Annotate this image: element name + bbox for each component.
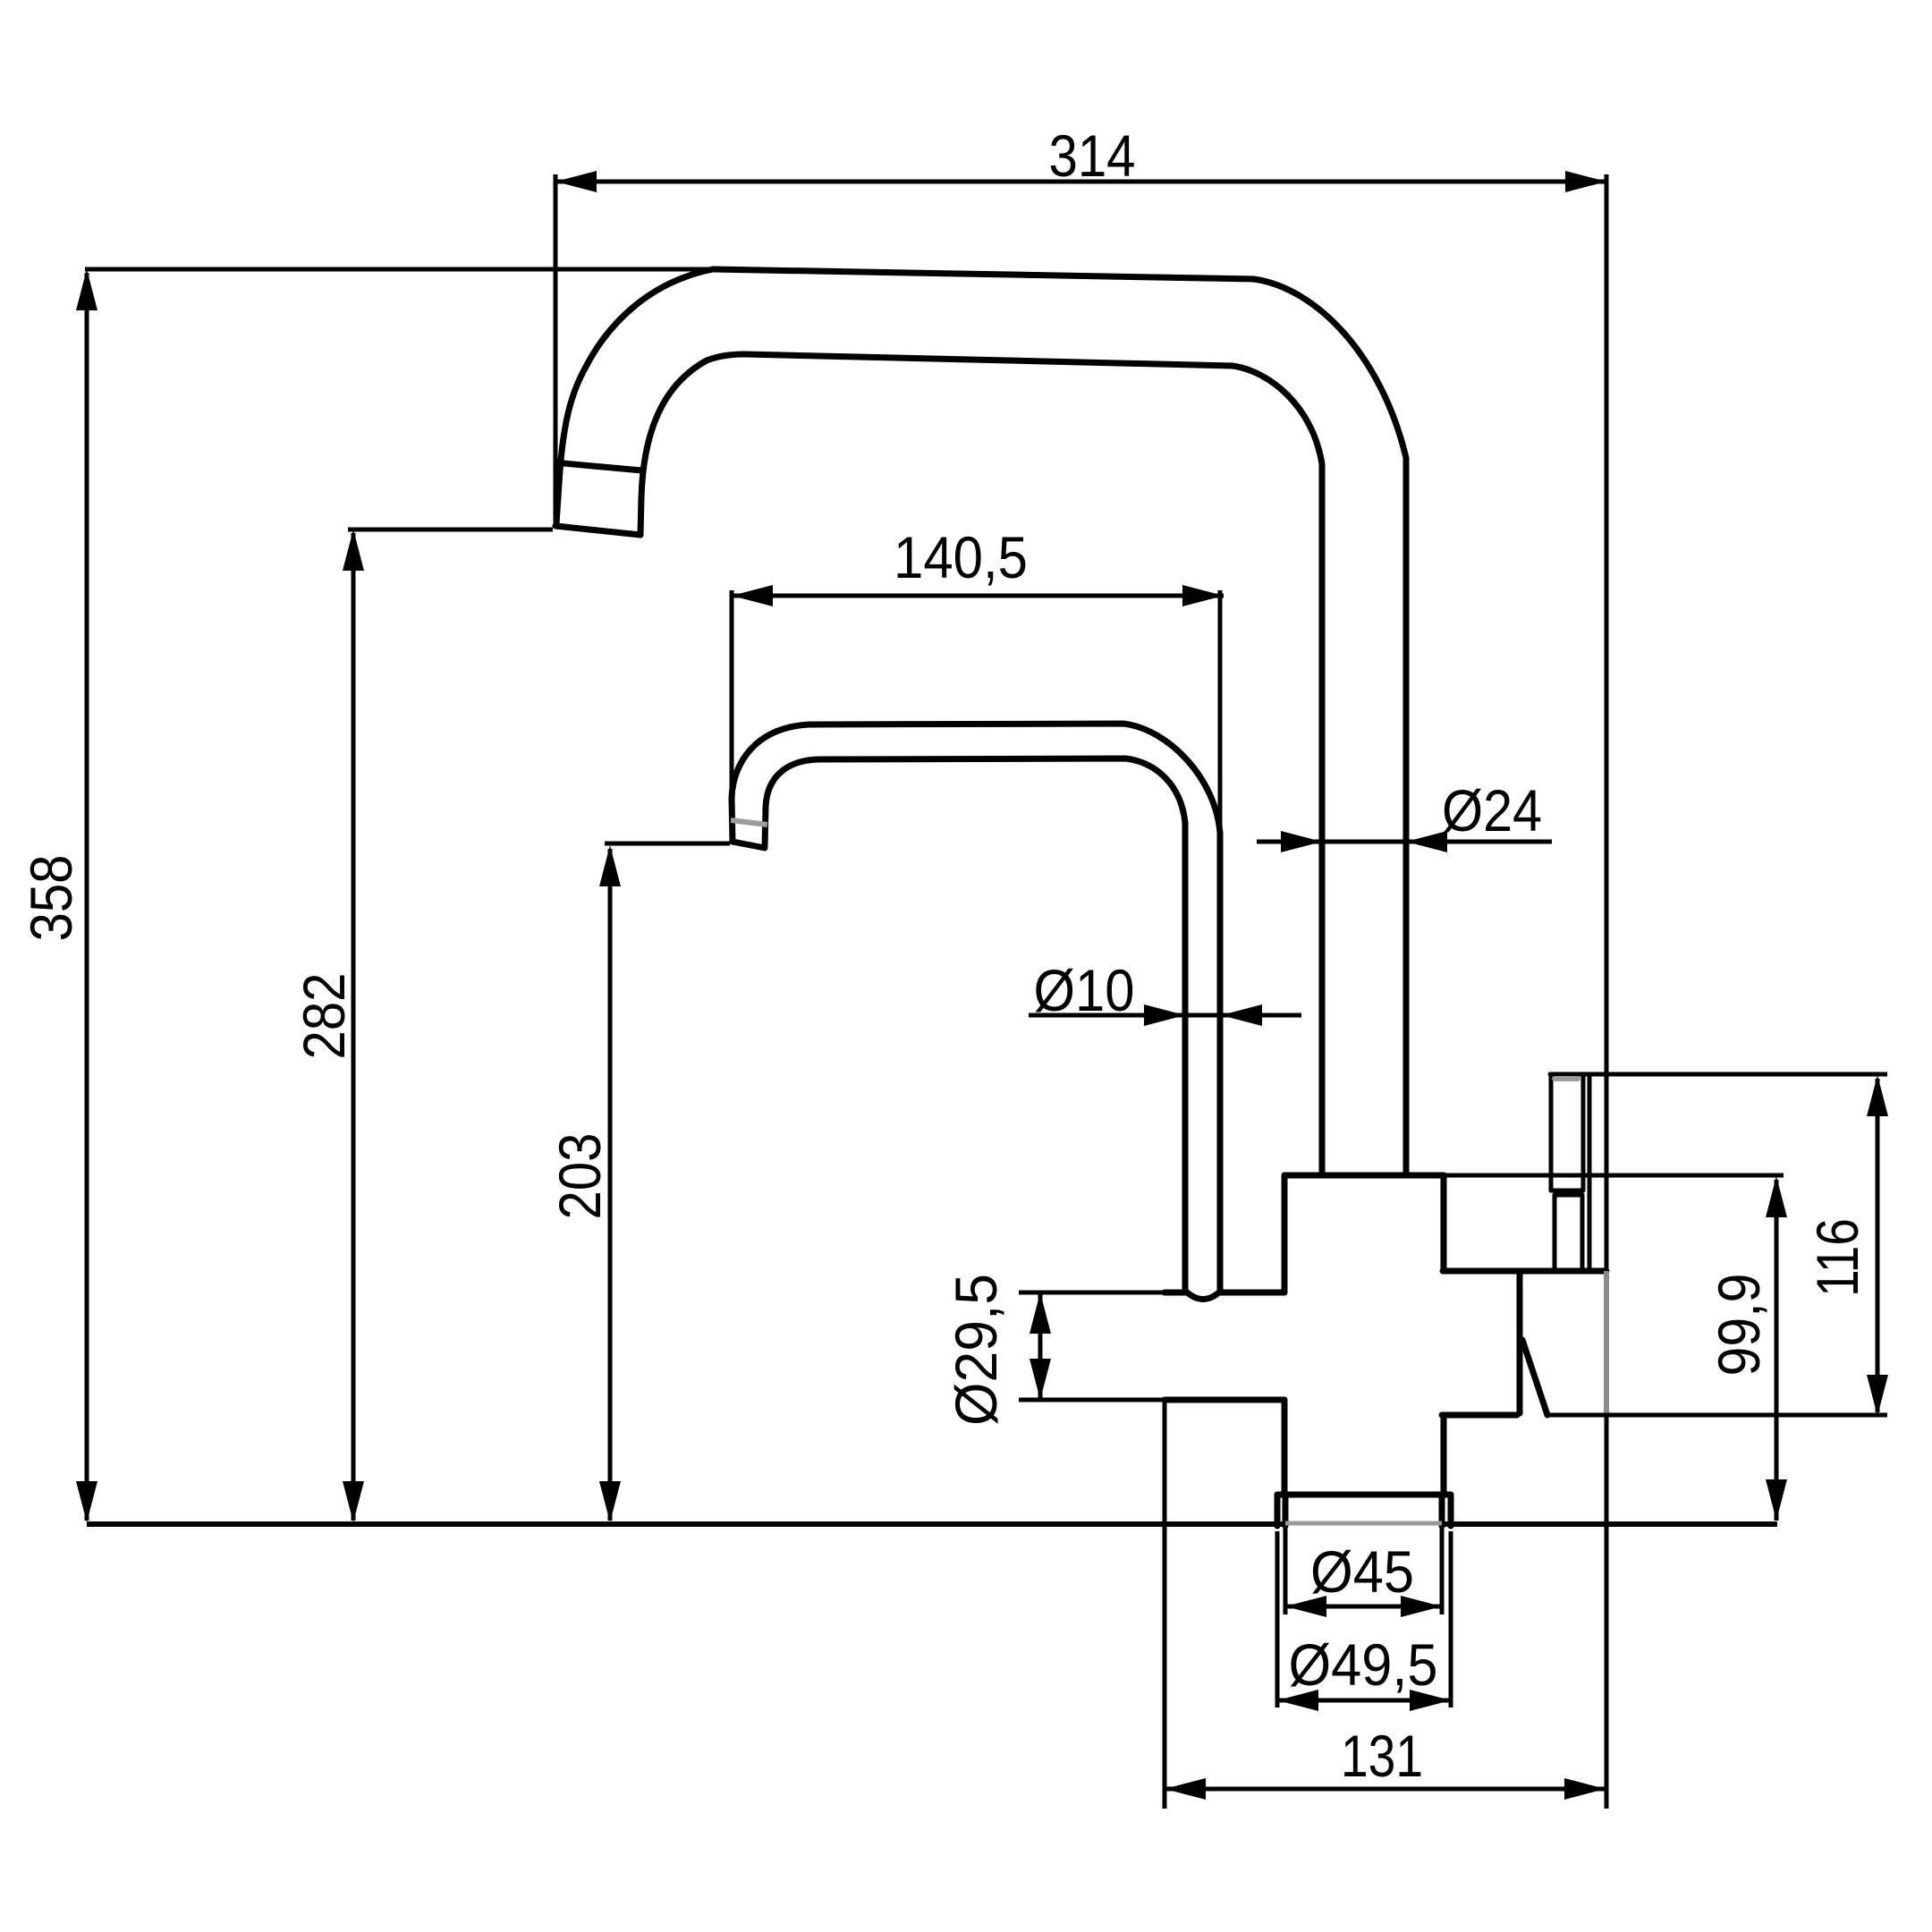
svg-text:116: 116 [1804, 1218, 1870, 1297]
svg-text:282: 282 [291, 973, 357, 1060]
svg-text:203: 203 [547, 1133, 613, 1220]
svg-text:Ø49,5: Ø49,5 [1289, 1631, 1438, 1698]
svg-text:358: 358 [18, 855, 84, 942]
svg-text:131: 131 [1341, 1723, 1423, 1789]
svg-text:99,9: 99,9 [1706, 1274, 1772, 1377]
svg-text:Ø24: Ø24 [1442, 777, 1542, 843]
svg-text:Ø10: Ø10 [1034, 957, 1135, 1023]
svg-text:Ø29,5: Ø29,5 [943, 1274, 1009, 1426]
svg-text:140,5: 140,5 [894, 524, 1028, 590]
svg-text:314: 314 [1049, 123, 1136, 189]
svg-text:Ø45: Ø45 [1310, 1538, 1414, 1605]
